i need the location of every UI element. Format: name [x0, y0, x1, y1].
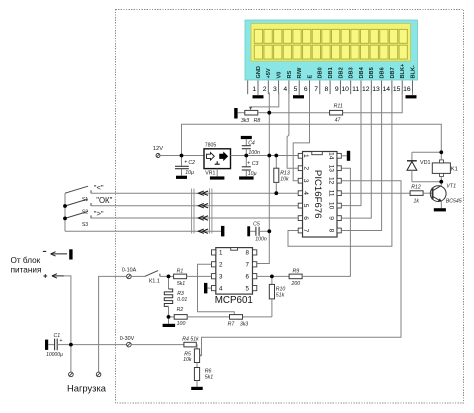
svg-text:DB3: DB3 — [349, 67, 355, 78]
wire 7805 gnd tab to ground — [216, 169, 218, 177]
ground under C3 — [239, 176, 254, 179]
resistor R8 (trimmer 3k3) — [245, 110, 258, 115]
load terminal 1 — [70, 345, 72, 373]
wire PIC pin11 to R12 — [341, 192, 410, 194]
wire R8 to +5V node — [258, 112, 269, 114]
svg-text:DB7: DB7 — [390, 67, 396, 78]
ground under shunt — [163, 324, 176, 327]
wire S2 line to PIC pin5 — [91, 205, 298, 207]
svg-text:K1: K1 — [451, 167, 458, 173]
wire LCD DB7 (pin14) to PIC pin7 — [288, 93, 392, 247]
wire R9 to PIC pin13 — [302, 168, 351, 276]
PIC pin stubs and numbers — [298, 153, 341, 233]
svg-text:0-10A: 0-10A — [122, 268, 137, 274]
resistor R2 (100) — [169, 316, 175, 318]
svg-text:100: 100 — [177, 321, 186, 327]
wire terminal to load (left, down) — [99, 276, 127, 372]
resistor R9 (200) — [289, 274, 302, 279]
wire R12 to VT1 base — [423, 192, 433, 194]
svg-text:"ОК": "ОК" — [96, 196, 112, 205]
cable arrows — [198, 191, 203, 195]
svg-text:4: 4 — [302, 191, 309, 195]
svg-text:3: 3 — [302, 179, 309, 183]
voltage regulator VR1 7805 — [204, 149, 231, 169]
shunt R3 (0.01) — [168, 276, 170, 289]
minus input arrow — [43, 250, 46, 252]
wire shunt node down to ground — [168, 317, 170, 324]
resistor R11 (47) — [330, 110, 343, 115]
plus input arrow — [43, 274, 47, 278]
ground at PIC pin14 (Vss) — [341, 155, 347, 157]
svg-text:13: 13 — [372, 86, 380, 93]
resistor R13 (10k) — [275, 156, 277, 169]
svg-text:10000µ: 10000µ — [46, 352, 63, 358]
svg-text:BLK+: BLK+ — [400, 63, 406, 78]
svg-text:R4 51k: R4 51k — [182, 336, 199, 342]
svg-text:VT1: VT1 — [446, 184, 456, 190]
ground bar of minus input — [69, 249, 72, 259]
wire LCD E (pin6) to PIC pin3 — [293, 93, 309, 181]
wire 12V to VR1 input — [160, 155, 204, 157]
wire plus input down to DC bus — [64, 276, 71, 345]
svg-text:11: 11 — [352, 86, 359, 93]
LCD module HG1 body — [245, 20, 418, 80]
svg-text:DB1: DB1 — [328, 67, 334, 78]
svg-text:1: 1 — [252, 86, 256, 93]
load terminal 2 — [96, 372, 101, 377]
trimmer R5 (10k) — [194, 349, 199, 363]
ground left of R8 — [234, 108, 237, 119]
svg-text:6: 6 — [246, 274, 250, 281]
wire 0-30V to R4 — [131, 344, 184, 346]
wire R1 to MCP pin3 — [187, 275, 212, 277]
svg-text:7: 7 — [302, 229, 309, 233]
diode VD1 — [412, 151, 441, 153]
svg-text:Нагрузка: Нагрузка — [67, 383, 107, 394]
ground of switch common — [221, 226, 224, 237]
op IC U1 PIC16F676 body — [303, 152, 338, 238]
svg-text:"<": "<" — [94, 183, 104, 192]
ground at LCD pin 16 — [412, 93, 414, 96]
wire MCP pin2 feedback path — [198, 264, 235, 314]
resistor R4 (51k) — [184, 342, 196, 347]
wire R2 to R7 — [187, 316, 229, 318]
svg-text:R8: R8 — [254, 118, 261, 124]
junction dots — [180, 154, 184, 158]
svg-text:5: 5 — [246, 285, 250, 292]
ground under C2 — [176, 176, 187, 179]
svg-text:R12: R12 — [411, 185, 421, 191]
svg-text:+: + — [247, 161, 250, 167]
svg-text:C4: C4 — [248, 141, 255, 147]
resistor R10 (51k) feedback — [271, 276, 273, 284]
wire coil bottom to collector node — [440, 176, 442, 181]
cable arrows — [198, 216, 203, 220]
svg-text:47: 47 — [335, 117, 342, 123]
svg-text:C5: C5 — [253, 222, 260, 228]
svg-text:R9: R9 — [292, 268, 299, 274]
svg-text:5: 5 — [302, 204, 309, 208]
ground at LCD pin 1 — [257, 93, 259, 96]
svg-text:BLK-: BLK- — [410, 65, 416, 78]
svg-text:0-30V: 0-30V — [120, 336, 135, 342]
wire LCD DB5 (pin12) to PIC pin9 — [341, 93, 371, 219]
svg-text:+: + — [184, 160, 187, 166]
svg-text:S3: S3 — [82, 222, 88, 228]
svg-text:">": ">" — [94, 209, 104, 218]
wire R5 wiper to PIC pin12 — [200, 181, 401, 356]
svg-text:12V: 12V — [153, 146, 163, 152]
relay contact K1.1 — [131, 275, 145, 277]
svg-text:DB4: DB4 — [359, 66, 365, 78]
wire MCP pin6 output — [257, 275, 290, 277]
wire DC bus to 0-30V terminal — [71, 344, 127, 346]
7805 internal ground pin mark — [215, 161, 220, 164]
svg-text:12: 12 — [362, 86, 370, 93]
7805 output arrow (solid) — [220, 153, 228, 160]
svg-text:12: 12 — [327, 177, 334, 185]
svg-text:10µ: 10µ — [185, 170, 194, 176]
svg-text:5: 5 — [294, 86, 298, 93]
svg-text:E: E — [307, 75, 313, 79]
ground bar at C1 — [45, 340, 48, 350]
resistor R12 (1k) — [410, 191, 423, 196]
switch common return wire — [65, 230, 221, 232]
svg-text:VD1: VD1 — [420, 160, 431, 166]
svg-text:2: 2 — [302, 166, 309, 170]
svg-text:От блок: От блок — [11, 256, 41, 265]
svg-text:10µ: 10µ — [248, 171, 257, 177]
wire LCD DB6 (pin13) to PIC pin8 — [341, 93, 381, 231]
button S1 "<" — [65, 186, 88, 193]
wire S3 line to PIC pin6 — [91, 217, 298, 219]
svg-text:9: 9 — [327, 216, 334, 220]
switch common bus — [64, 193, 66, 231]
LCD character cells 16x2 — [254, 29, 407, 59]
svg-text:R11: R11 — [334, 103, 343, 109]
svg-text:R/W: R/W — [297, 67, 303, 79]
svg-text:4: 4 — [219, 285, 223, 292]
svg-text:11: 11 — [327, 190, 334, 197]
capacitor C3 (10u) below rail — [245, 156, 247, 167]
wire R5 to R6 — [196, 363, 198, 368]
svg-text:5k1: 5k1 — [205, 374, 213, 380]
svg-text:2: 2 — [263, 86, 267, 93]
svg-text:14: 14 — [327, 152, 334, 160]
R8 wiper arrow to LCD pin3 V0 — [251, 93, 279, 107]
svg-text:MCP601: MCP601 — [215, 295, 253, 306]
resistor R1 (5k1) — [174, 274, 187, 279]
wire S1 line to PIC pin4 — [91, 192, 298, 194]
svg-text:8: 8 — [325, 86, 329, 93]
ground at LCD pin 5 — [298, 93, 300, 96]
wire +5V node to R11 — [269, 112, 329, 114]
svg-text:VR1: VR1 — [205, 171, 215, 177]
svg-text:DB6: DB6 — [380, 67, 386, 78]
svg-text:3k3: 3k3 — [241, 118, 249, 124]
svg-text:C2: C2 — [188, 160, 195, 166]
+5V drop wire to MCP601 pin7 — [257, 93, 270, 264]
wire R11 to LCD pin15 BLK+ — [343, 93, 403, 113]
wire K1.1 to R1 and shunt node — [160, 275, 174, 277]
wire LCD DB4 (pin11) to PIC pin10 — [341, 93, 361, 206]
ground under VR1 — [210, 176, 225, 179]
VT1 collector wire — [440, 182, 442, 186]
7805 input arrow (open) — [207, 153, 215, 160]
svg-text:BC545: BC545 — [446, 199, 462, 205]
wire R4 to divider — [195, 345, 198, 349]
capacitor C5 (100n) — [247, 226, 250, 236]
+5V rail from VR1 to PIC pin1 — [231, 155, 299, 157]
cable connector marks — [192, 189, 212, 234]
capacitor C4 (100n) to ground above rail — [241, 136, 252, 139]
ground at MCP pin4 — [207, 287, 211, 289]
svg-text:8: 8 — [246, 250, 250, 257]
resistor R6 (5k1) — [194, 368, 199, 381]
wire ground to R8 — [238, 112, 245, 114]
LCD display window — [251, 24, 411, 62]
wire coil top to supply node — [440, 152, 442, 160]
svg-text:1k: 1k — [414, 198, 420, 204]
ground under divider — [191, 387, 203, 390]
svg-text:+: + — [59, 338, 62, 344]
svg-text:15: 15 — [393, 86, 401, 93]
svg-text:7: 7 — [314, 86, 318, 93]
svg-text:R2: R2 — [177, 307, 184, 313]
svg-text:9: 9 — [335, 86, 339, 93]
svg-text:К1.1: К1.1 — [149, 279, 160, 285]
svg-text:1: 1 — [302, 154, 309, 158]
VT1 emitter wire to ground — [440, 201, 442, 208]
wire node to relay supply line (top) — [182, 124, 442, 155]
svg-text:51k: 51k — [276, 293, 285, 299]
button S3 ">" — [65, 211, 88, 218]
cable arrows — [198, 229, 203, 233]
svg-text:6: 6 — [304, 86, 308, 93]
svg-text:V0: V0 — [277, 72, 283, 79]
svg-text:DB0: DB0 — [318, 67, 324, 78]
capacitor C2 (10u) — [181, 156, 183, 167]
svg-text:14: 14 — [383, 86, 391, 93]
dotted PCB border — [116, 10, 464, 404]
svg-text:питания: питания — [11, 266, 42, 275]
svg-text:DB2: DB2 — [338, 67, 344, 78]
svg-text:100n: 100n — [255, 237, 267, 243]
svg-text:RS: RS — [287, 70, 293, 78]
resistor R7 (3k3) — [230, 315, 243, 320]
svg-text:200: 200 — [290, 281, 300, 287]
op-amp U2 MCP601 body — [216, 248, 253, 295]
svg-text:10k: 10k — [280, 176, 289, 182]
svg-text:8: 8 — [327, 229, 334, 233]
wire R6 to ground — [196, 381, 198, 387]
relay coil K1 — [432, 163, 450, 174]
svg-text:C3: C3 — [252, 161, 259, 167]
cable arrows — [198, 204, 203, 208]
svg-text:R7: R7 — [228, 321, 236, 327]
wire LCD RS (pin4) to PIC pin2 — [287, 93, 298, 169]
svg-text:10: 10 — [341, 86, 349, 93]
svg-text:3: 3 — [273, 86, 277, 93]
svg-text:+5V: +5V — [266, 68, 272, 78]
svg-text:4: 4 — [283, 86, 287, 93]
svg-text:13: 13 — [327, 165, 334, 173]
svg-text:10: 10 — [327, 202, 334, 210]
svg-text:DB5: DB5 — [369, 67, 375, 78]
transistor VT1 BC545 — [430, 186, 446, 202]
svg-text:10k: 10k — [183, 357, 192, 363]
svg-text:7: 7 — [246, 262, 250, 269]
wire VD1 anode to coil bottom — [412, 181, 441, 183]
svg-text:GND: GND — [256, 66, 262, 78]
button S2 "OK" — [65, 199, 88, 206]
svg-text:7805: 7805 — [205, 143, 217, 149]
svg-text:R1: R1 — [177, 268, 184, 274]
svg-text:3k3: 3k3 — [240, 321, 248, 327]
svg-text:16: 16 — [403, 86, 411, 93]
svg-text:100n: 100n — [248, 150, 260, 156]
wire R7 to R10 bottom — [243, 316, 272, 318]
svg-text:PIC16F676: PIC16F676 — [312, 170, 323, 219]
svg-text:1: 1 — [219, 250, 223, 257]
svg-text:5k1: 5k1 — [177, 281, 185, 287]
ground under VT1 — [434, 208, 446, 211]
svg-text:2: 2 — [219, 262, 223, 269]
LCD pin number boxes 1-16 — [248, 81, 413, 95]
svg-text:0.01: 0.01 — [177, 297, 187, 303]
svg-text:3: 3 — [219, 274, 223, 281]
svg-text:6: 6 — [302, 216, 309, 220]
